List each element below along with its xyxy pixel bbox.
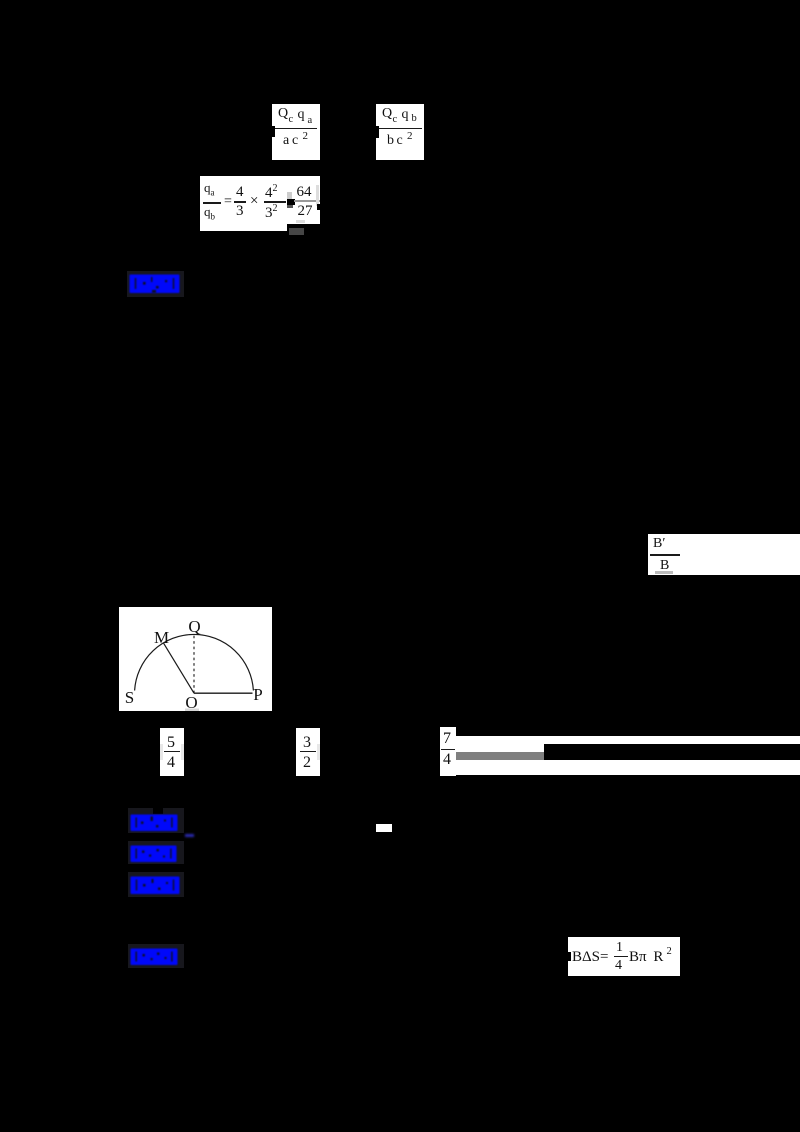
blue label 2 xyxy=(128,808,184,833)
equation image: qa/qb = 4/3 x 4^2/3^2 [] 64/27 xyxy=(200,176,321,232)
arc S..Q..P xyxy=(135,634,254,690)
main white panel xyxy=(200,176,287,231)
blue label 5 xyxy=(128,944,184,968)
svg-text:Q: Q xyxy=(188,617,200,636)
blue label 3 xyxy=(128,841,184,865)
dashed line O-Q xyxy=(193,634,195,693)
fraction bar xyxy=(275,128,317,130)
black notch on top of label 2 box xyxy=(153,808,163,814)
svg-text:M: M xyxy=(154,628,169,647)
times xyxy=(250,193,258,210)
left edge tick xyxy=(272,126,275,137)
B'/B fraction strip xyxy=(648,534,800,575)
gray smudge below right panel xyxy=(289,228,304,235)
blue label 4 xyxy=(128,872,184,898)
svg-text:P: P xyxy=(253,685,262,704)
black square (approx symbol) xyxy=(287,192,292,199)
fraction 3/2 xyxy=(296,728,320,776)
white strip bottom xyxy=(456,760,800,775)
fraction 7/4 with strips xyxy=(440,727,456,776)
faint smudge below O xyxy=(185,709,199,712)
denominator a c^2 xyxy=(283,133,289,149)
equation image: Qc*qb/(b c^2) xyxy=(376,104,424,160)
fraction 4^2/3^2 xyxy=(265,183,278,202)
fraction bar xyxy=(379,128,422,130)
semicircle diagram xyxy=(119,607,272,711)
fraction 4/3 xyxy=(236,184,244,201)
light strip below 27 xyxy=(296,220,305,223)
fraction 5/4 xyxy=(160,728,184,776)
gray strip xyxy=(456,752,544,760)
left edge tick xyxy=(376,126,379,138)
equals xyxy=(224,194,232,210)
faint blue dash after label 2 xyxy=(185,834,194,837)
svg-text:O: O xyxy=(185,693,197,711)
right white panel 64/27 xyxy=(287,176,320,224)
numerator Qc qb xyxy=(382,106,392,122)
right edge tick xyxy=(317,204,320,210)
equation image: B delta S = 1/4 B pi R^2 xyxy=(568,937,680,976)
base line O-P xyxy=(194,692,253,694)
equation image: Qc*qa/(a c^2) xyxy=(272,104,320,160)
radius line O-M xyxy=(163,643,194,694)
denominator b c^2 xyxy=(387,133,394,149)
fraction 64/27 xyxy=(297,184,312,201)
white strip mid-left xyxy=(456,744,544,752)
numerator Qc qa xyxy=(278,106,288,122)
fraction qa/qb xyxy=(204,180,215,198)
white dash (answer B) xyxy=(376,824,392,832)
right edge light column xyxy=(316,185,319,206)
white strip top xyxy=(456,736,800,745)
blue label 1 xyxy=(127,271,184,297)
svg-text:S: S xyxy=(125,688,134,707)
